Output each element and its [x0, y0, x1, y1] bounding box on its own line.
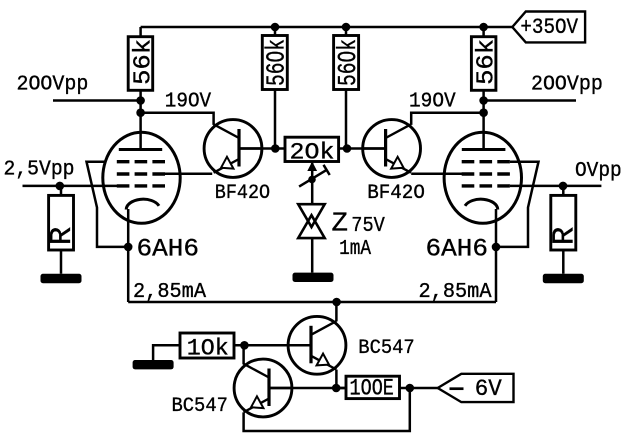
svg-text:OVpp: OVpp	[575, 160, 622, 183]
svg-text:6V: 6V	[475, 376, 502, 402]
svg-text:1OOE: 1OOE	[350, 376, 394, 402]
svg-text:6AH6: 6AH6	[426, 235, 489, 264]
svg-text:56k: 56k	[130, 39, 157, 85]
svg-text:19OV: 19OV	[409, 90, 456, 113]
svg-text:2OOVpp: 2OOVpp	[17, 74, 89, 97]
svg-text:2OOVpp: 2OOVpp	[531, 74, 603, 97]
svg-text:2Ok: 2Ok	[290, 140, 335, 167]
svg-text:BF42O: BF42O	[215, 182, 270, 205]
svg-text:56Ok: 56Ok	[333, 39, 363, 86]
svg-text:R: R	[45, 227, 80, 246]
svg-text:2,85mA: 2,85mA	[419, 281, 492, 304]
svg-text:Z: Z	[332, 209, 349, 239]
svg-text:56Ok: 56Ok	[262, 39, 292, 86]
svg-text:75V: 75V	[351, 215, 385, 238]
svg-text:6AH6: 6AH6	[137, 235, 200, 264]
svg-text:19OV: 19OV	[165, 90, 212, 113]
svg-text:+35OV: +35OV	[520, 15, 578, 40]
svg-text:BC547: BC547	[172, 395, 228, 418]
svg-text:BC547: BC547	[358, 337, 414, 360]
svg-text:1Ok: 1Ok	[187, 336, 229, 363]
svg-text:2,85mA: 2,85mA	[133, 281, 206, 304]
svg-text:2,5Vpp: 2,5Vpp	[4, 158, 75, 181]
svg-text:BF42O: BF42O	[367, 182, 425, 205]
svg-text:R: R	[547, 227, 582, 246]
svg-text:56k: 56k	[474, 39, 501, 85]
svg-text:1mA: 1mA	[339, 238, 371, 261]
